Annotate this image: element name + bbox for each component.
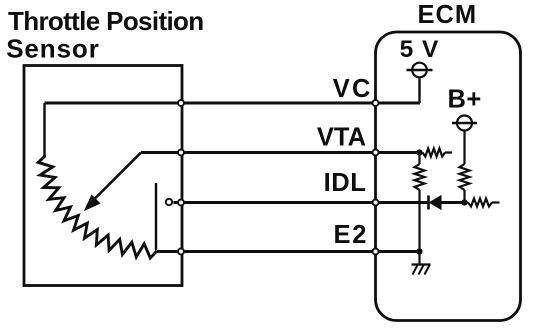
ECM box U1 — [376, 32, 521, 321]
B+ supply symbol — [452, 116, 477, 131]
node E2 junction — [416, 248, 422, 254]
svg-text:VTA: VTA — [317, 124, 366, 152]
svg-text:Sensor: Sensor — [6, 34, 100, 64]
node IDL junction — [461, 199, 467, 205]
svg-text:E2: E2 — [334, 221, 369, 249]
svg-text:Throttle Position: Throttle Position — [8, 6, 204, 36]
ECM pin IDL — [373, 200, 379, 206]
svg-text:VC: VC — [333, 75, 373, 103]
title: Throttle Position Sensor — [6, 6, 203, 64]
sensor terminal E2 — [178, 249, 184, 255]
ECM pin E2 — [373, 249, 379, 255]
svg-text:IDL: IDL — [324, 169, 367, 197]
resistor R3 (B+ pull-up) — [460, 132, 470, 203]
ground — [412, 265, 431, 275]
IDL moving contact bar — [155, 183, 157, 250]
IDL contact point — [166, 199, 172, 205]
node VTA junction — [416, 149, 422, 155]
wire E2 — [157, 250, 420, 253]
svg-text:B+: B+ — [448, 86, 482, 114]
wire IDL — [174, 201, 429, 204]
resistor R1 (VTA series) — [420, 149, 453, 157]
resistor R4 (IDL series) — [465, 199, 500, 207]
sensor terminal IDL — [178, 200, 184, 206]
sensor box — [24, 66, 182, 286]
wire VC — [45, 102, 421, 105]
sensor terminal VC — [178, 100, 184, 106]
resistor R2 (VTA pull-down) — [415, 153, 425, 252]
svg-text:5 V: 5 V — [400, 36, 440, 63]
5V supply symbol — [407, 63, 433, 78]
potentiometer track (sensor) — [38, 155, 157, 258]
ECM pin VC — [373, 100, 379, 106]
diode D1 — [429, 196, 465, 210]
wire VC to track top — [43, 103, 45, 157]
wire E2 junction to ground — [418, 252, 420, 265]
svg-text:ECM: ECM — [418, 1, 478, 29]
wiper arrow (VTA) — [85, 153, 141, 211]
sensor terminal VTA — [178, 150, 184, 156]
wire VC to 5V supply — [418, 79, 420, 104]
ECM pin VTA — [373, 150, 379, 156]
wire VTA — [141, 151, 420, 154]
